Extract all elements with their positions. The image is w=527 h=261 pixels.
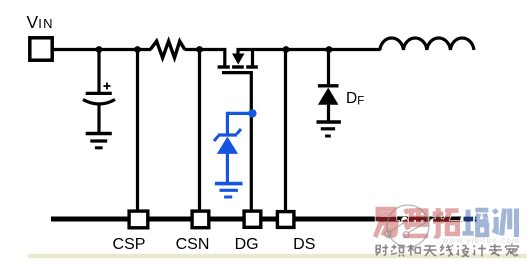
wire MOSFET gate down to DG terminal: [250, 71, 253, 212]
watermark logo swashes: [385, 205, 442, 247]
node CSN junction: [196, 46, 203, 53]
watermark char di (red): [403, 208, 428, 236]
watermark slogan char she: [376, 245, 388, 256]
wire DF junction down to diode: [327, 50, 330, 87]
wire zener to blue ground: [226, 153, 229, 183]
wire VIN to resistor: [52, 48, 151, 51]
node input cap junction: [96, 46, 103, 53]
wire CSN junction down to CSN terminal: [198, 50, 201, 213]
wire diode to ground: [327, 104, 330, 121]
watermark big chars: dark cores over bus line: [375, 208, 516, 238]
svg-text:CSN: CSN: [176, 236, 210, 253]
wire CSP junction down to CSP terminal: [136, 50, 139, 213]
terminal CSP: [129, 211, 148, 228]
watermark char pei (blue): [462, 210, 488, 235]
ground (blue, zener): [215, 184, 243, 197]
ground (input cap): [86, 134, 112, 148]
svg-text:www.yidituo.com: www.yidituo.com: [441, 236, 520, 245]
watermark slogan char jia: [506, 244, 518, 257]
wire resistor to MOSFET drain: [185, 48, 227, 51]
watermark char yi (red): [375, 209, 396, 238]
terminal CSN: [192, 211, 209, 228]
node CSP junction: [134, 46, 141, 53]
watermark footer rule: [28, 254, 527, 258]
node DF junction: [326, 46, 333, 53]
bottom bus wire: [51, 217, 476, 222]
watermark big chars: white halo layer: [375, 208, 516, 238]
watermark char tuo (red): [433, 208, 459, 236]
watermark slogan char ji: [473, 245, 486, 257]
wire junction to capacitor: [97, 50, 100, 94]
resistor R1: [150, 41, 185, 58]
transistor Q1 (power MOSFET): [218, 48, 258, 73]
wire blue gate-clamp horizontal: [227, 112, 252, 115]
diode DF (freewheel): [318, 86, 339, 105]
ground (DF): [317, 122, 341, 136]
wire switch-node rail: [237, 48, 381, 51]
watermark slogan char she2: [457, 246, 470, 257]
terminal DS: [277, 212, 294, 228]
terminal DG: [244, 211, 261, 227]
svg-text:DG: DG: [235, 236, 259, 253]
watermark slogan char zhuan: [489, 244, 502, 256]
wire DS junction down to DS terminal: [284, 50, 287, 213]
node DS junction: [283, 46, 290, 53]
watermark slogan char pin: [391, 245, 405, 257]
watermark slogan char he: [408, 245, 421, 256]
input terminal VIN box: [30, 38, 52, 60]
watermark slogan char xian: [440, 245, 453, 257]
wire blue down to zener: [226, 112, 229, 135]
watermark char xun (blue): [493, 209, 517, 237]
svg-text:DS: DS: [293, 236, 315, 253]
capacitor C1 (polarized): [83, 83, 115, 105]
inductor L1: [380, 38, 474, 50]
wire capacitor to ground: [97, 104, 100, 133]
watermark slogan char tian: [424, 246, 437, 256]
svg-text:CSP: CSP: [113, 236, 146, 253]
node blue junction on gate line: [248, 109, 256, 117]
zener diode Z1: [214, 129, 241, 154]
